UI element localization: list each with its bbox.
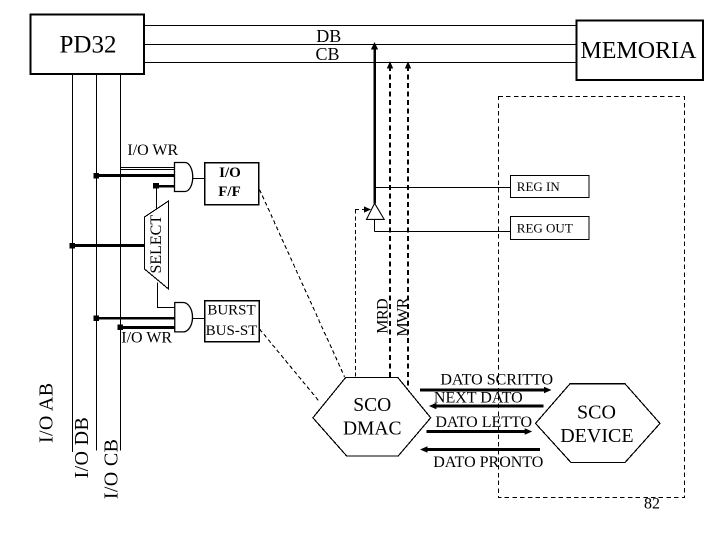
hexagon SCO DMAC <box>313 378 431 457</box>
wire double line I/O WR to gate U1 (upper strand) <box>121 167 175 169</box>
wire thick select-to-gate U1 <box>156 185 174 188</box>
hexagon SCO DEVICE <box>536 384 661 463</box>
arrowhead MRD up into CB <box>387 61 393 68</box>
and gate U1 <box>175 162 193 191</box>
svg-text:DATO SCRITTO: DATO SCRITTO <box>440 372 553 389</box>
svg-text:SCO: SCO <box>353 395 391 416</box>
svg-text:I/O: I/O <box>219 165 241 181</box>
svg-text:I/O WR: I/O WR <box>121 330 172 347</box>
arrowhead into buffer <box>364 206 371 212</box>
svg-text:DMAC: DMAC <box>343 419 402 440</box>
junction dot on I/O AB line <box>70 243 76 249</box>
buffer driver triangle <box>367 203 385 219</box>
wire thick from I/O DB to gate U1 <box>94 174 175 177</box>
svg-text:MRD: MRD <box>375 299 392 334</box>
junction dot on I/O CB line lower <box>118 325 124 331</box>
dashed device boundary box <box>499 97 685 498</box>
dashed control into buffer <box>355 209 364 211</box>
svg-text:REG OUT: REG OUT <box>517 221 573 236</box>
register box REG IN <box>511 176 590 198</box>
arrow DATO PRONTO left <box>420 446 540 452</box>
wire thick vertical DB tap <box>373 45 376 203</box>
arrow DATO SCRITTO right <box>420 387 552 393</box>
processor box PD32 <box>31 15 145 75</box>
arrowhead MWR up into CB <box>405 61 411 68</box>
svg-text:82: 82 <box>644 496 660 513</box>
and gate U2 <box>175 303 193 332</box>
arrow DATO LETTO right <box>427 428 533 434</box>
wire select output up <box>156 186 158 209</box>
register box REG OUT <box>511 217 590 240</box>
svg-text:PD32: PD32 <box>60 32 117 59</box>
wire thick from I/O CB to gate U2 <box>119 326 175 329</box>
dashed enable from I/O F/F to SCO DMAC <box>260 190 345 377</box>
svg-text:CB: CB <box>315 44 339 64</box>
svg-text:MWR: MWR <box>394 297 411 336</box>
decoder SELECT trapezoid <box>145 201 169 289</box>
arrow NEXT DATO left <box>429 403 543 409</box>
wire I/O AB vertical <box>72 74 74 452</box>
svg-text:SCO: SCO <box>577 401 616 423</box>
svg-text:F/F: F/F <box>218 184 241 200</box>
svg-text:BUS-ST: BUS-ST <box>206 323 258 339</box>
wire to REG IN <box>375 187 511 189</box>
svg-text:I/O CB: I/O CB <box>101 439 123 499</box>
svg-text:MEMORIA: MEMORIA <box>580 38 697 64</box>
wire thick I/O AB to SELECT <box>71 244 145 247</box>
wire I/O DB vertical <box>96 74 98 451</box>
svg-text:DEVICE: DEVICE <box>560 425 633 447</box>
wire thick from I/O DB to gate U2 <box>95 317 175 320</box>
junction dot on I/O DB line lower <box>94 315 100 321</box>
svg-text:DATO LETTO: DATO LETTO <box>435 414 532 431</box>
wire double line I/O WR to gate U1 (lower strand) <box>121 169 175 171</box>
svg-text:NEXT DATO: NEXT DATO <box>434 389 523 406</box>
dashed MWR line <box>407 66 409 389</box>
wire bus line middle <box>144 44 576 46</box>
wire bus line CB bottom <box>144 62 576 64</box>
svg-text:I/O AB: I/O AB <box>35 383 57 443</box>
flip-flop box I/O F/F <box>205 163 259 205</box>
svg-text:DB: DB <box>316 26 341 46</box>
wire select output down <box>158 283 175 308</box>
svg-text:REG IN: REG IN <box>517 179 561 194</box>
svg-text:BURST: BURST <box>207 303 255 319</box>
memory box MEMORIA <box>577 21 704 81</box>
dashed vertical from DMAC to buffer corner <box>355 210 357 378</box>
svg-text:DATO PRONTO: DATO PRONTO <box>433 454 543 471</box>
wire to REG OUT <box>375 231 511 233</box>
burst box BURST BUS-ST <box>205 301 260 342</box>
svg-text:SELECT: SELECT <box>148 215 165 274</box>
svg-text:I/O WR: I/O WR <box>127 142 178 159</box>
wire triangle to REG OUT line <box>374 219 376 231</box>
arrowhead up into DB <box>371 42 378 50</box>
dashed enable from BURST to SCO DMAC <box>260 329 319 401</box>
wire gate U2 output <box>193 318 205 320</box>
wire bus line DB top <box>144 25 576 27</box>
wire I/O CB vertical <box>120 74 122 451</box>
dashed MRD line <box>389 66 391 378</box>
junction dot select corner upper <box>153 183 159 189</box>
junction dot on I/O DB line <box>94 173 100 179</box>
wire gate U1 output <box>193 178 205 180</box>
svg-text:I/O DB: I/O DB <box>71 417 93 479</box>
